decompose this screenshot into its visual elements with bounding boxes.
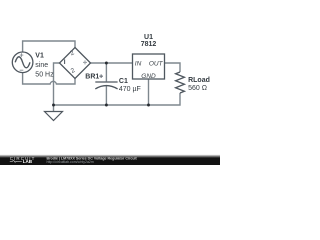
svg-text:V1: V1 [35, 53, 44, 60]
capacitor C1 top plate [95, 81, 117, 83]
footer bar [0, 0, 1, 1]
svg-text:IN: IN [135, 60, 142, 67]
AC source V1 body [12, 52, 33, 73]
footer logo squiggle [10, 160, 22, 162]
wire C1 bottom lead [105, 86, 107, 105]
svg-text:50 Hz: 50 Hz [35, 72, 54, 79]
wire U1 OUT to RLoad top [165, 63, 181, 72]
ground symbol [45, 112, 63, 121]
wire V1 bottom to bridge bottom with hop [23, 73, 75, 84]
capacitor C1 bottom plate (curved) [95, 86, 117, 89]
wire bridge right to U1 IN [91, 62, 133, 64]
junction node C1 top [105, 62, 108, 65]
C1 polarity plus [99, 74, 103, 78]
svg-text:OUT: OUT [149, 60, 164, 67]
bridge rectifier BR1 body [60, 48, 91, 79]
wire bridge left to ground rail [54, 63, 60, 111]
svg-text:LAB: LAB [23, 159, 33, 164]
junction node C1 bottom [105, 104, 108, 107]
wire C1 top lead [105, 63, 107, 81]
wire V1 top to bridge top [23, 41, 75, 52]
svg-text:http://circuitlab.com/c/nty2a2: http://circuitlab.com/c/nty2a2m [47, 160, 94, 164]
BR1 pin mark plus (right) [83, 60, 87, 64]
svg-text:RLoad: RLoad [188, 77, 210, 84]
junction node U1 GND [147, 104, 150, 107]
resistor RLoad zigzag [176, 72, 185, 93]
junction node ground [52, 104, 55, 107]
svg-text:GND: GND [141, 73, 156, 80]
V1 minus mark [20, 69, 24, 71]
svg-text:BR1: BR1 [85, 74, 99, 81]
V1 sine glyph [15, 57, 30, 68]
wire RLoad bottom to rail [54, 93, 181, 105]
svg-text:C1: C1 [119, 78, 128, 85]
regulator U1 body [133, 54, 165, 79]
svg-text:7812: 7812 [141, 41, 157, 48]
svg-text:470 µF: 470 µF [119, 86, 141, 93]
BR1 pin mark minus (left) [64, 59, 66, 64]
svg-text:U1: U1 [144, 34, 153, 41]
svg-text:560 Ω: 560 Ω [188, 85, 207, 92]
wire U1 GND stub [148, 79, 150, 105]
V1 plus mark [20, 53, 24, 57]
svg-text:sine: sine [35, 62, 48, 69]
